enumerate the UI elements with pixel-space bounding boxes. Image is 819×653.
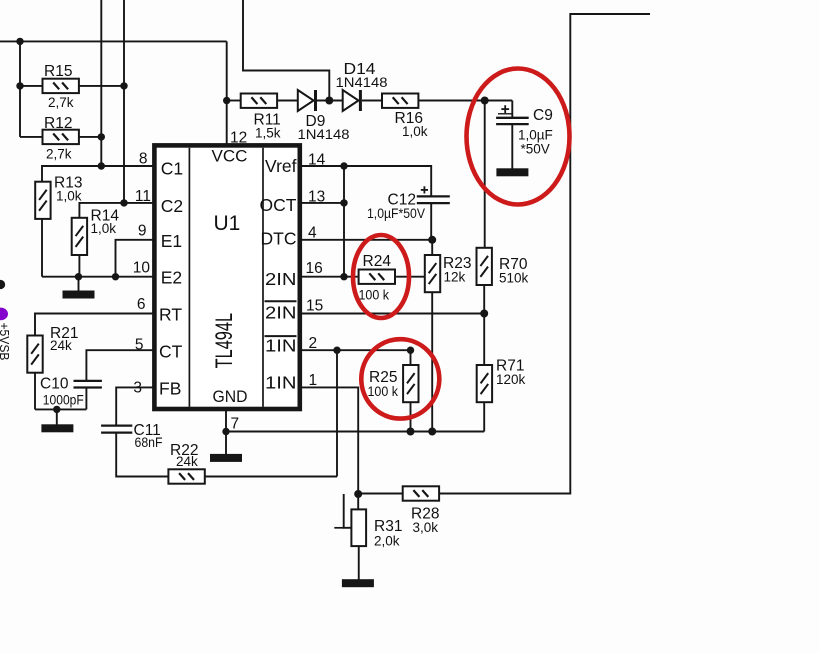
node E1-E2 junction <box>112 273 119 280</box>
svg-text:6: 6 <box>137 296 146 313</box>
node R12 right <box>98 133 105 140</box>
value 1,0k of R13 <box>56 188 82 203</box>
svg-text:16: 16 <box>306 260 323 277</box>
svg-text:U1: U1 <box>214 212 241 235</box>
svg-text:GND: GND <box>213 387 248 406</box>
label R25 <box>369 369 397 386</box>
value 1N4148 of D14 <box>336 75 388 90</box>
pin number 14 <box>308 152 326 169</box>
svg-text:2,0k: 2,0k <box>374 533 400 548</box>
wire pin 5 CT <box>86 350 154 380</box>
svg-text:OCT: OCT <box>260 195 297 215</box>
svg-text:CT: CT <box>159 341 183 361</box>
plus mark of C12 <box>421 186 428 193</box>
resistor R11 <box>241 94 277 108</box>
wire R13 bottom lead <box>41 219 43 277</box>
value 3,0k of R28 <box>413 520 439 535</box>
wire vertical line to pin 8 <box>100 0 102 166</box>
wire R22 right lead <box>205 476 337 478</box>
svg-text:1IN: 1IN <box>265 336 297 356</box>
svg-text:1IN: 1IN <box>265 373 297 393</box>
wire R11 left lead <box>227 100 241 102</box>
ground under C9 <box>496 168 528 176</box>
label D9 <box>306 113 326 130</box>
svg-text:9: 9 <box>138 223 147 240</box>
wire R70 bottom lead <box>483 286 485 314</box>
svg-text:11: 11 <box>135 188 151 205</box>
capacitor C9 <box>496 118 529 124</box>
svg-text:1000pF: 1000pF <box>43 393 84 408</box>
pin name CT <box>159 341 183 361</box>
pin name 1IN-bar <box>265 336 297 356</box>
svg-text:R12: R12 <box>44 115 72 132</box>
value 2,7k of R15 <box>48 95 74 110</box>
svg-text:R24: R24 <box>363 253 392 270</box>
wire pin 13 OCT <box>299 202 344 204</box>
resistor R13 <box>35 182 50 219</box>
value 1,0uF*50V of C12 <box>367 206 425 221</box>
resistor R21 <box>27 336 42 373</box>
node R31-R28 junction <box>354 490 362 498</box>
pin number 10 <box>133 259 151 276</box>
wire pin 10 E2 <box>42 276 154 278</box>
label R24 <box>363 253 392 270</box>
value 68nF of C11 <box>135 435 163 450</box>
value 1,0k of R16 <box>402 124 428 139</box>
svg-text:VCC: VCC <box>212 147 248 166</box>
highlight ellipse around R25 <box>361 339 439 418</box>
wire R31 bottom lead <box>358 546 360 580</box>
value 2,7k of R12 <box>46 147 72 162</box>
pin number 12 <box>230 129 247 146</box>
svg-text:1,0k: 1,0k <box>56 188 82 203</box>
pin name 2IN <box>265 269 297 289</box>
label R21 <box>50 325 78 342</box>
pin name C1 <box>161 159 183 179</box>
svg-text:15: 15 <box>306 298 323 315</box>
svg-text:10: 10 <box>133 259 151 276</box>
resistor R12 <box>43 130 79 144</box>
node pin11 line B <box>120 199 127 206</box>
resistor R15 <box>43 79 79 93</box>
node R15 right <box>120 82 127 89</box>
label R28 <box>411 505 439 522</box>
svg-text:1,0µF: 1,0µF <box>518 127 553 142</box>
svg-text:24k: 24k <box>176 454 198 469</box>
pin number 7 <box>231 416 240 433</box>
value 100 k of R25 <box>368 384 399 399</box>
pin name OCT <box>260 195 297 215</box>
diode D9 <box>298 90 317 111</box>
resistor R31 trimmer body <box>351 509 366 546</box>
svg-text:7: 7 <box>231 416 240 433</box>
wire vertical 14-13-16 link <box>343 166 345 277</box>
wire C10 bottom lead <box>85 388 87 410</box>
pin number 16 <box>306 260 323 277</box>
wire R14 bottom lead <box>78 254 80 277</box>
value *50V of C9 <box>521 142 550 157</box>
label R22 <box>170 442 198 459</box>
resistor R28 <box>403 486 439 500</box>
svg-text:C9: C9 <box>533 107 553 124</box>
pin name 1IN <box>265 373 297 393</box>
svg-text:14: 14 <box>308 152 326 169</box>
pin number 3 <box>133 380 142 397</box>
pin number 11 <box>135 188 151 205</box>
value 1,0uF of C9 <box>518 127 553 142</box>
wire pin 1 1IN <box>299 387 358 494</box>
svg-text:3: 3 <box>133 380 142 397</box>
node half dot at left edge <box>0 280 5 289</box>
label GND <box>213 387 248 406</box>
ground under R13 R14 <box>63 291 95 299</box>
resistor R25 <box>403 365 418 402</box>
label VCC <box>212 147 248 166</box>
wire ground stub below C10 <box>56 409 58 424</box>
svg-text:Vref: Vref <box>265 156 297 176</box>
diode D14 <box>343 90 362 111</box>
label R31 <box>374 518 402 535</box>
wire top bend feed to D9 junction <box>243 0 329 101</box>
svg-text:68nF: 68nF <box>135 435 163 450</box>
pin name FB <box>159 378 181 398</box>
svg-text:24k: 24k <box>50 338 72 353</box>
wire R15 right lead <box>79 85 124 87</box>
node +5VSB purple marker <box>0 308 8 321</box>
capacitor C11 <box>101 426 132 433</box>
node C10 ground junction <box>53 406 60 413</box>
value 1N4148 of D9 <box>298 127 350 142</box>
plus mark of C9 <box>498 105 513 114</box>
wire bottom-left horizontal <box>35 408 86 410</box>
highlight ellipse around R24 <box>353 235 409 318</box>
wire top horizontal bus <box>0 40 227 42</box>
svg-text:+5VSB: +5VSB <box>0 323 12 361</box>
label C9 <box>533 107 553 124</box>
node R25 top junction <box>407 347 414 354</box>
node pin2 junction <box>333 347 340 354</box>
wire pin 12 VCC drop <box>226 41 228 145</box>
label R16 <box>395 110 423 127</box>
wire pin2 link down to R22 row <box>336 350 338 476</box>
value 1,5k of R11 <box>255 125 281 140</box>
svg-text:3,0k: 3,0k <box>413 520 439 535</box>
wire R12 left lead <box>20 136 43 138</box>
svg-text:510k: 510k <box>499 271 529 286</box>
wire R31 top lead <box>357 494 359 509</box>
svg-text:1,0k: 1,0k <box>402 124 428 139</box>
wire R71 top lead <box>483 314 485 365</box>
pin name 2IN-bar <box>265 301 297 322</box>
node R14 bottom junction <box>75 273 82 280</box>
pin number 8 <box>139 151 148 168</box>
wire R16 to C9 node <box>418 100 512 102</box>
svg-text:FB: FB <box>159 378 181 398</box>
wire R24 right lead <box>396 276 426 278</box>
wire right tall loop <box>440 14 650 494</box>
svg-text:1,0µF*50V: 1,0µF*50V <box>367 206 425 221</box>
svg-text:2: 2 <box>309 335 318 352</box>
label R13 <box>54 175 82 192</box>
wire pin 8 C1 <box>42 166 154 182</box>
node C9 junction <box>481 97 489 105</box>
wire pin 2 1INbar <box>299 349 411 351</box>
wire vertical line to pin 11 <box>123 0 125 203</box>
wire pin 9 E1 <box>116 240 155 277</box>
wire R23 top lead <box>431 240 433 256</box>
node D9-D14 junction <box>325 97 333 105</box>
svg-text:E1: E1 <box>161 231 182 251</box>
label U1 <box>214 212 241 235</box>
value 24k of R22 <box>176 454 198 469</box>
value 100 k of R24 <box>359 287 390 302</box>
svg-text:100 k: 100 k <box>359 287 390 302</box>
label R23 <box>443 255 471 272</box>
wire C12 bottom lead <box>430 203 432 240</box>
pin number 9 <box>138 223 147 240</box>
wire R11 to D9 <box>277 100 298 102</box>
label R14 <box>91 208 120 225</box>
wire R25 bottom lead <box>410 403 412 432</box>
pin number 2 <box>309 335 318 352</box>
wire D14 to R16 <box>362 100 382 102</box>
svg-text:1N4148: 1N4148 <box>336 75 388 90</box>
wire pin 15 2INbar <box>299 313 484 315</box>
pin number 5 <box>135 337 144 354</box>
node pin16 junction <box>340 273 347 280</box>
pin number 1 <box>309 372 318 389</box>
label C11 <box>134 422 161 439</box>
node R23 bottom junction <box>428 428 436 436</box>
wire R12 right lead <box>79 136 101 138</box>
pin name E2 <box>161 268 182 288</box>
value 12k of R23 <box>444 270 466 285</box>
label TL494L rotated <box>211 313 238 368</box>
resistor R71 <box>477 365 492 402</box>
pin number 6 <box>137 296 146 313</box>
svg-text:R15: R15 <box>44 63 72 80</box>
pin number 4 <box>308 224 317 241</box>
resistor R16 <box>382 94 418 108</box>
node pin15 junction <box>480 310 488 318</box>
highlight ellipse around C9 <box>467 69 570 205</box>
svg-text:TL494L: TL494L <box>211 313 238 368</box>
pin number 13 <box>308 189 325 206</box>
wire D9 to D14 <box>317 100 343 102</box>
node R25 bottom junction <box>407 428 415 436</box>
node A top-left junction <box>16 38 23 45</box>
label C12 <box>388 191 416 208</box>
pin number 15 <box>306 298 323 315</box>
wire pin 16 2IN <box>299 276 358 278</box>
resistor R70 <box>477 248 492 285</box>
value 1,0k of R14 <box>91 221 117 236</box>
wire pin 6 RT <box>35 314 154 337</box>
wire R23 bottom lead <box>431 292 433 432</box>
label C10 <box>40 375 69 392</box>
wire pin 7 GND stub <box>225 410 227 455</box>
capacitor C12 <box>417 196 450 203</box>
pin name RT <box>159 305 182 325</box>
label R71 <box>496 358 524 375</box>
value 2,0k of R31 <box>374 533 400 548</box>
wire R28 left lead <box>358 493 402 495</box>
wire R71 bottom lead <box>483 403 485 432</box>
wire pin 4 DTC <box>299 239 432 241</box>
svg-text:C2: C2 <box>161 196 183 216</box>
resistor R23 <box>425 255 440 292</box>
value 1000pF of C10 <box>43 393 84 408</box>
svg-text:12: 12 <box>230 129 247 146</box>
ground under R31 <box>342 579 374 587</box>
svg-text:1,5k: 1,5k <box>255 125 281 140</box>
ground under C10 <box>41 424 73 432</box>
wire C11 bottom to R22 <box>116 433 168 477</box>
svg-text:13: 13 <box>308 189 325 206</box>
svg-text:2IN: 2IN <box>265 269 297 289</box>
svg-text:DTC: DTC <box>261 228 297 248</box>
wire C9 bottom lead <box>511 124 513 168</box>
resistor R14 <box>72 218 87 255</box>
label D14 <box>344 61 376 78</box>
svg-text:4: 4 <box>308 224 317 241</box>
wire bottom bus <box>226 431 484 433</box>
node pin7 junction <box>222 428 229 435</box>
svg-text:8: 8 <box>139 151 148 168</box>
value 24k of R21 <box>50 338 72 353</box>
label R15 <box>44 63 72 80</box>
wire R21 bottom lead <box>34 372 36 409</box>
node C12-R23 junction <box>428 236 436 244</box>
pin name Vref <box>265 156 297 176</box>
pin name E1 <box>161 231 182 251</box>
wire R70 top lead <box>484 101 486 248</box>
wire pin 11 C2 <box>79 203 154 219</box>
node R11 left junction <box>223 97 230 104</box>
label R70 <box>499 256 528 273</box>
wire R25 top lead <box>410 350 412 364</box>
node pin13 junction <box>340 199 347 206</box>
label R12 <box>44 115 72 132</box>
node pin14 junction <box>340 162 347 169</box>
resistor R24 <box>359 270 395 284</box>
node R15 left <box>16 82 23 89</box>
wire C9 top lead <box>511 101 513 118</box>
label R11 <box>254 111 281 128</box>
pin name C2 <box>161 196 183 216</box>
resistor R22 <box>168 469 204 483</box>
svg-text:C1: C1 <box>161 159 183 179</box>
svg-text:2,7k: 2,7k <box>48 95 74 110</box>
svg-text:1N4148: 1N4148 <box>298 127 350 142</box>
node pin8 line A <box>98 162 105 169</box>
wire pin 14 Vref <box>299 166 431 196</box>
svg-text:100 k: 100 k <box>368 384 399 399</box>
svg-text:12k: 12k <box>444 270 466 285</box>
svg-text:120k: 120k <box>496 372 526 387</box>
capacitor C10 <box>74 381 102 388</box>
svg-text:2IN: 2IN <box>265 303 297 323</box>
svg-text:RT: RT <box>159 305 182 325</box>
wire ground stub below R14 <box>78 277 80 291</box>
pin name DTC <box>261 228 297 248</box>
wire R15 left lead <box>20 85 43 87</box>
value 510k of R70 <box>499 271 529 286</box>
wire pin 3 FB <box>116 387 154 425</box>
svg-text:C10: C10 <box>40 375 69 392</box>
label +5VSB rotated <box>0 323 12 361</box>
svg-text:1,0k: 1,0k <box>91 221 117 236</box>
value 120k of R71 <box>496 372 526 387</box>
svg-text:*50V: *50V <box>521 142 550 157</box>
wire R31 wiper tap <box>334 494 351 528</box>
svg-text:2,7k: 2,7k <box>46 147 72 162</box>
svg-text:E2: E2 <box>161 268 182 288</box>
op-amp U1 TL494L IC body <box>154 145 299 409</box>
wire vertical from node A down to R12 row <box>19 41 21 136</box>
svg-text:1: 1 <box>309 372 318 389</box>
svg-text:5: 5 <box>135 337 144 354</box>
ground at pin 7 <box>210 454 242 462</box>
